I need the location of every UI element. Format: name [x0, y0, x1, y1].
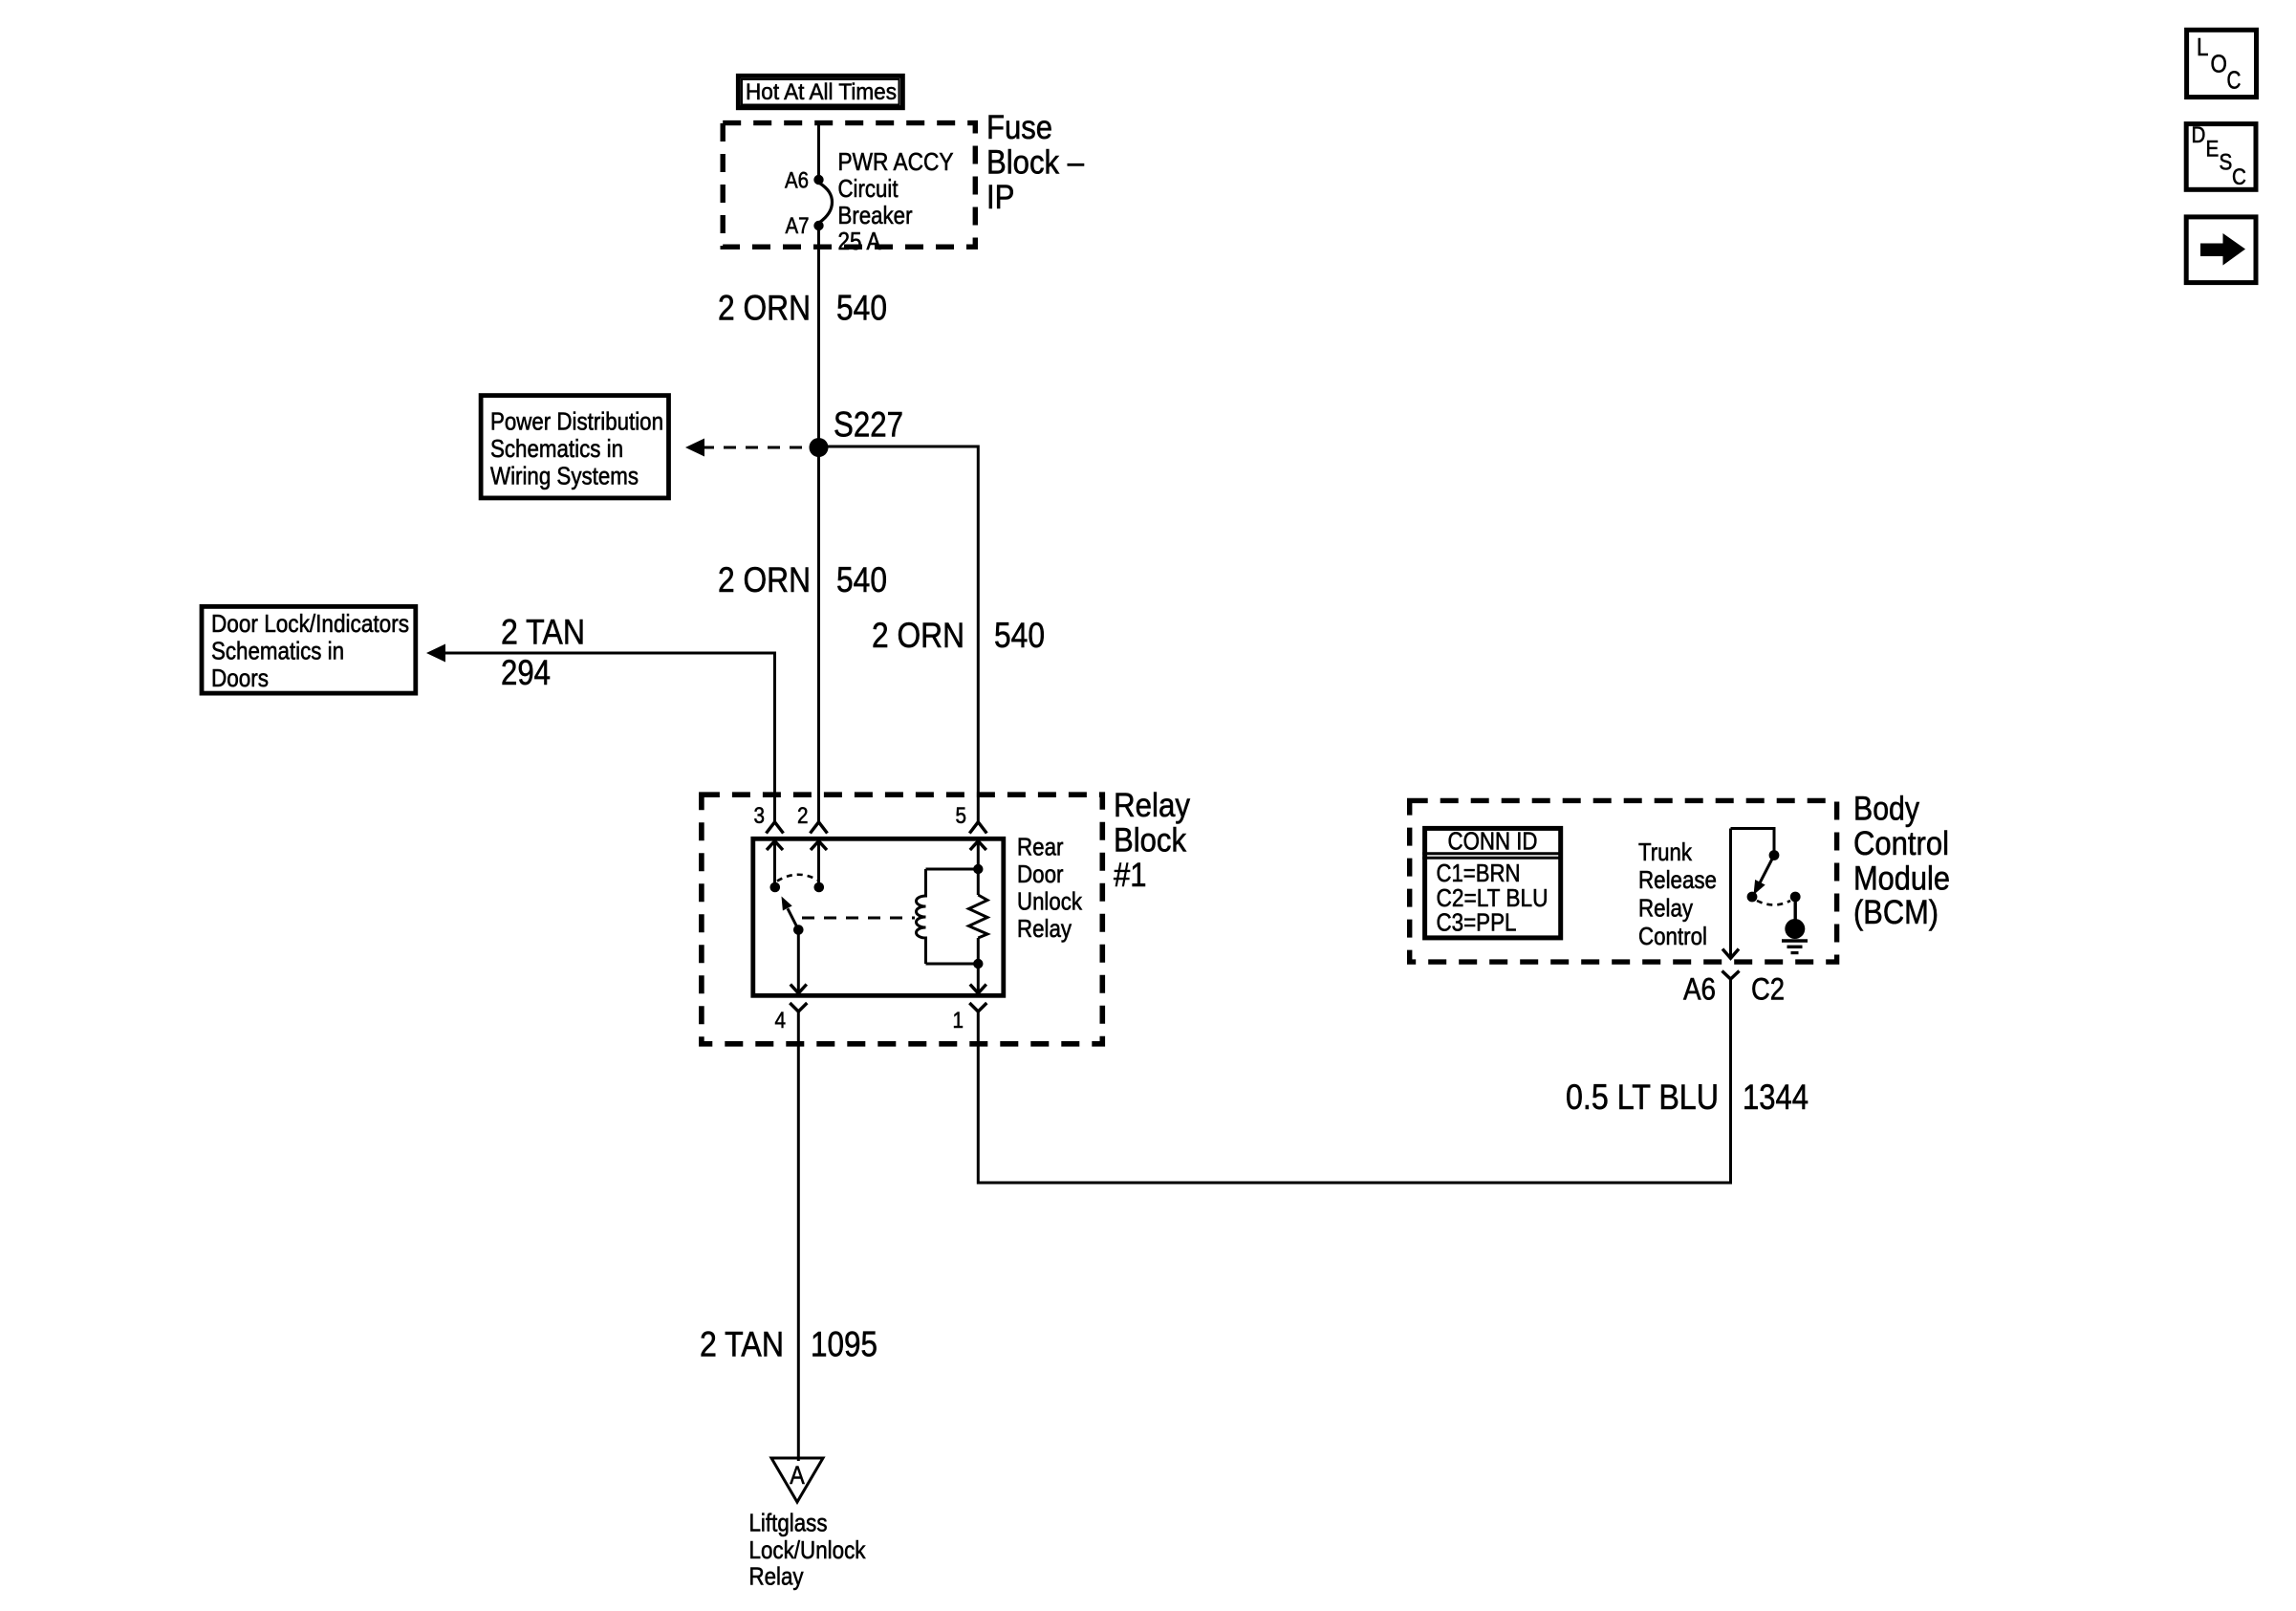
svg-text:3: 3: [754, 803, 766, 829]
label: Rear Door Unlock Relay: [1017, 833, 1083, 944]
svg-text:Relay: Relay: [749, 1562, 804, 1591]
pin 4 internal wire: [791, 930, 807, 993]
dashed arrow to power distribution box: [685, 439, 811, 457]
svg-text:Release: Release: [1638, 865, 1717, 894]
label: Trunk Release Relay Control: [1638, 838, 1717, 950]
circuit breaker PWR ACCY 25 A: [820, 147, 954, 255]
pin 5 internal wire: [970, 841, 986, 993]
connector pin 1: [953, 1003, 987, 1034]
wire: 0.5 LT BLU 1344 pin 1 to BCM: [978, 979, 1809, 1183]
svg-text:Door: Door: [1017, 860, 1064, 888]
svg-text:540: 540: [994, 616, 1045, 655]
svg-text:C: C: [2232, 164, 2246, 190]
DESC icon: [2186, 122, 2256, 190]
svg-text:(BCM): (BCM): [1853, 894, 1939, 931]
svg-text:A: A: [790, 1461, 805, 1490]
relay resistor: [969, 895, 988, 938]
wire: 2 TAN 1095 to liftglass relay: [700, 1012, 877, 1461]
dashed link switch arm to coil: [802, 917, 915, 920]
splice S227: [810, 405, 904, 458]
BCM trunk release driver switch: [1731, 829, 1791, 905]
svg-text:Fuse: Fuse: [986, 109, 1052, 146]
svg-text:Breaker: Breaker: [838, 201, 913, 229]
svg-text:PWR ACCY: PWR ACCY: [838, 147, 954, 176]
svg-text:Trunk: Trunk: [1638, 838, 1693, 866]
svg-text:A6: A6: [1683, 972, 1716, 1007]
relay switch arm and pole: [782, 897, 804, 935]
connector pin 5: [956, 803, 987, 834]
connector pin 3: [754, 803, 784, 834]
dashed arc between relay contacts: [777, 875, 818, 882]
svg-text:IP: IP: [986, 179, 1015, 216]
svg-text:4: 4: [775, 1008, 787, 1034]
svg-text:Schematics in: Schematics in: [211, 637, 344, 665]
svg-text:2 ORN: 2 ORN: [872, 616, 964, 655]
svg-text:Body: Body: [1853, 791, 1919, 828]
wire: feed from hot at all times: [817, 120, 820, 180]
rear door unlock relay box: [753, 838, 1004, 995]
svg-text:C3=PPL: C3=PPL: [1437, 908, 1517, 937]
connector pin 4: [775, 1003, 808, 1034]
label: Relay Block #1: [1114, 787, 1190, 894]
svg-text:2 TAN: 2 TAN: [501, 613, 585, 652]
body control module dashed box: [1410, 800, 1837, 962]
svg-text:0.5 LT BLU: 0.5 LT BLU: [1566, 1078, 1719, 1117]
LOC icon: [2187, 30, 2257, 97]
svg-text:2 TAN: 2 TAN: [700, 1325, 784, 1364]
svg-text:C2: C2: [1751, 972, 1785, 1007]
node A7: [786, 213, 824, 239]
svg-text:A6: A6: [785, 168, 809, 194]
svg-text:O: O: [2211, 50, 2227, 78]
svg-text:Control: Control: [1638, 922, 1707, 950]
svg-text:2 ORN: 2 ORN: [718, 289, 811, 328]
svg-text:Block –: Block –: [986, 144, 1084, 182]
svg-text:1344: 1344: [1743, 1078, 1809, 1117]
svg-text:C: C: [2227, 66, 2242, 95]
label: Fuse Block - IP: [986, 109, 1084, 216]
off-page connector triangle A: [771, 1458, 823, 1502]
svg-text:D: D: [2192, 122, 2206, 148]
relay contact wire from pin 2: [811, 841, 827, 893]
connector A6 C2 at BCM: [1683, 971, 1785, 1007]
svg-text:A7: A7: [786, 213, 810, 239]
svg-text:Hot At All Times: Hot At All Times: [746, 79, 897, 105]
svg-text:Control: Control: [1853, 825, 1949, 862]
BCM output wire with arrow: [1722, 829, 1739, 959]
svg-text:CONN ID: CONN ID: [1448, 827, 1538, 856]
svg-text:Relay: Relay: [1017, 914, 1072, 943]
svg-text:#1: #1: [1114, 857, 1147, 894]
relay block #1 dashed box: [702, 795, 1102, 1044]
label: Liftglass Lock/Unlock Relay: [749, 1509, 867, 1591]
svg-text:Door Lock/Indicators: Door Lock/Indicators: [211, 609, 409, 638]
svg-text:Unlock: Unlock: [1017, 887, 1083, 916]
label box: Power Distribution Schematics in Wiring Systems: [481, 396, 668, 498]
svg-text:Wiring Systems: Wiring Systems: [490, 462, 639, 490]
BCM internal ground: [1782, 892, 1808, 953]
svg-text:Relay: Relay: [1114, 787, 1190, 824]
svg-text:E: E: [2206, 137, 2220, 163]
svg-text:1095: 1095: [811, 1325, 877, 1364]
svg-text:25 A: 25 A: [838, 227, 882, 255]
svg-text:2 ORN: 2 ORN: [718, 560, 811, 599]
svg-text:S227: S227: [834, 405, 903, 445]
wire: 2 ORN 540 from S227 to relay pin 2: [718, 447, 887, 822]
label box: Door Lock/Indicators Schematics in Doors: [202, 606, 416, 693]
relay contact wire from pin 3: [767, 841, 783, 893]
svg-text:Lock/Unlock: Lock/Unlock: [749, 1535, 867, 1564]
svg-text:Liftglass: Liftglass: [749, 1509, 828, 1537]
node A6: [785, 168, 824, 194]
svg-text:Power Distribution: Power Distribution: [490, 407, 663, 436]
svg-text:540: 540: [836, 289, 887, 328]
svg-text:5: 5: [956, 803, 967, 829]
wire: 2 ORN 540 branch from S227 to relay pin 5: [819, 446, 1046, 822]
relay coil: [917, 864, 984, 969]
svg-text:L: L: [2197, 33, 2209, 61]
wire: 2 ORN 540 from breaker to S227: [718, 226, 887, 447]
svg-text:Block: Block: [1114, 822, 1186, 860]
forward arrow icon: [2186, 217, 2256, 283]
svg-text:540: 540: [836, 560, 887, 599]
label box: Hot At All Times: [738, 76, 902, 107]
label: Body Control Module (BCM): [1853, 791, 1950, 932]
svg-text:Rear: Rear: [1017, 833, 1064, 861]
svg-text:294: 294: [501, 653, 551, 692]
wire: 2 TAN 294 from relay pin 3 to door lock schematics: [426, 613, 775, 822]
svg-text:S: S: [2220, 150, 2233, 176]
svg-text:Circuit: Circuit: [838, 174, 899, 203]
svg-text:Doors: Doors: [211, 664, 269, 692]
svg-text:Schematics in: Schematics in: [490, 434, 623, 463]
svg-text:Module: Module: [1853, 860, 1950, 898]
fuse block IP dashed box: [723, 123, 975, 248]
connector pin 2: [797, 803, 828, 834]
svg-text:Relay: Relay: [1638, 894, 1693, 923]
svg-text:2: 2: [797, 803, 809, 829]
svg-text:1: 1: [953, 1008, 964, 1034]
CONN ID table: [1422, 827, 1563, 938]
